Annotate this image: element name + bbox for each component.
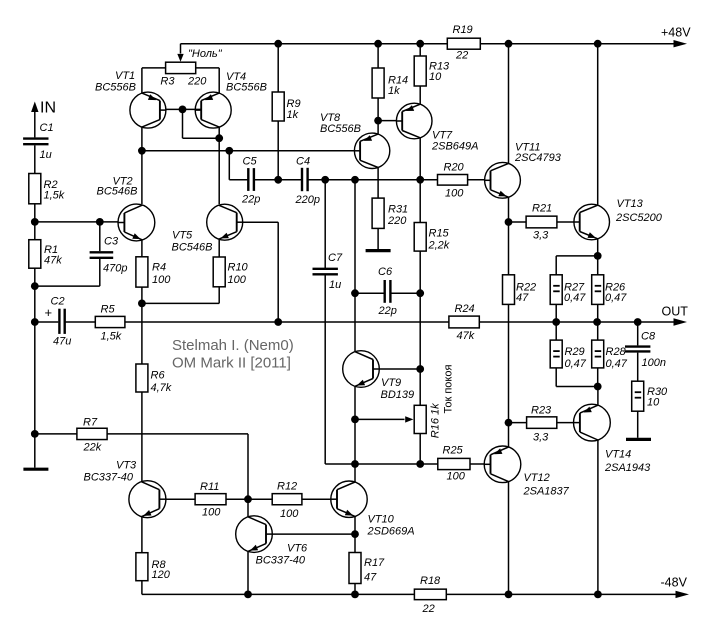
wire VT10 collector up [354,464,356,482]
svg-text:2,2k: 2,2k [428,240,450,252]
junction VT6-base/VT10-em/R17 [351,530,359,538]
wire R29 row to VT14 node [556,386,598,388]
wire rail to R9 [277,44,279,92]
resistor R28 [592,340,628,370]
svg-text:47: 47 [364,572,377,584]
wire VT3 base to R11 [166,498,195,500]
wire node to R16 [419,369,421,405]
wire R16 wiper [355,418,405,420]
wire VT7 collector down [419,138,421,180]
svg-text:Stelmah I. (Nem0): Stelmah I. (Nem0) [172,337,294,354]
wire VT11 emitter down [508,197,510,222]
resistor R2 [29,174,65,204]
svg-text:R21: R21 [532,203,552,215]
wire -48V rail right segment [446,593,676,595]
svg-text:22p: 22p [241,194,260,206]
wire node to R15 [419,180,421,223]
ground R31 [366,249,391,252]
wire C-bus seg3 [308,179,355,181]
wire R12 to VT10 base [302,498,332,500]
wire bus to R29 [555,322,557,340]
wire node to R12 [248,498,272,500]
junction VT13 emitter [594,252,602,260]
wire C6 left lead [355,292,385,294]
resistor R12 [272,481,302,521]
junction C3 top/VT2 base [96,218,104,226]
wire C6 right lead [390,292,420,294]
capacitor C5 [241,156,260,206]
node R16 wiper arrow [405,416,413,422]
svg-text:2SC4793: 2SC4793 [514,152,562,164]
wire R9 to C-bus [277,121,279,180]
junction R1/C3 [31,282,39,290]
svg-text:R18: R18 [420,575,441,587]
node OUT arrow [674,318,688,325]
resistor R24 [449,303,479,342]
svg-text:100: 100 [202,507,221,519]
svg-text:120: 120 [152,569,171,581]
junction rail/VT6 [244,591,252,599]
wire collector row to VT8 base [142,150,355,152]
wire -48V rail left segment [142,593,415,595]
wire R16 to bias row [419,434,421,465]
wire R25 to VT12 base [470,463,485,465]
wire C-bus seg4 [355,179,420,181]
ground input [23,468,48,471]
svg-text:-48V: -48V [661,576,688,590]
svg-text:R19: R19 [453,24,473,36]
svg-text:VT1: VT1 [115,70,135,82]
svg-text:22: 22 [455,50,468,62]
wire R28 to VT14 node [597,368,599,387]
svg-text:3,3: 3,3 [533,432,549,444]
capacitor C7 [313,252,343,291]
junction VT9 emitter/wiper [351,416,359,424]
junction VT1/VT2 collector node [138,147,146,155]
wire R3 right to VT4 emitter [218,68,220,93]
wire VT13-em row left [556,255,598,257]
wire bus R24 to OUT [479,321,674,323]
wire R6 to VT3 collector [141,392,143,482]
wire R8 to rail [141,581,143,595]
svg-text:OM Mark II [2011]: OM Mark II [2011] [172,355,291,372]
wire R10 to row [218,287,220,304]
node +48V arrow [674,40,688,47]
wire R26 to bus [597,304,599,322]
wire VT14 collector to rail [597,440,599,594]
junction rail/R9 [274,40,282,48]
junction R16/bias row [416,460,424,468]
wire VT14 emitter up [597,387,599,406]
junction VT11-em/R21/R22 [505,218,513,226]
junction rail/R17 [351,591,359,599]
wire node to R17 [354,534,356,552]
wire C2 to R5 [65,321,96,323]
junction rail/R14 [374,40,382,48]
resistor R6 [136,364,172,394]
resistor R29 [550,340,587,370]
wire R4 to node [141,287,143,303]
resistor R20 [438,162,468,200]
svg-text:1k: 1k [287,109,299,121]
wire VT10 emitter down [354,516,356,534]
svg-text:BC337-40: BC337-40 [84,472,134,484]
svg-text:C3: C3 [104,236,119,248]
svg-text:R12: R12 [277,481,297,493]
resistor R21 [526,203,557,242]
svg-text:R10: R10 [228,262,249,274]
wire C8 to R30 [637,353,639,382]
resistor R7 [77,417,107,454]
svg-text:47k: 47k [457,330,475,342]
wire VT2 emitter to R4 [141,240,143,257]
svg-text:R7: R7 [83,417,98,429]
wire x355 top to C6 [354,180,356,293]
wire VT11 collector to rail [508,44,510,164]
svg-text:Ток покоя: Ток покоя [443,365,455,414]
resistor R19 [447,24,480,62]
wire VT5 base right [243,221,279,223]
resistor R31 [372,198,408,228]
wire rail to R14 [377,44,379,68]
svg-text:10: 10 [647,397,660,409]
resistor R13 [414,56,450,86]
capacitor C1 [23,122,53,161]
wire C7 down to bias row [324,275,326,464]
junction rail/VT14 [594,591,602,599]
svg-text:22p: 22p [378,305,397,317]
svg-text:BC546B: BC546B [97,186,138,198]
svg-text:0,47: 0,47 [564,292,586,304]
svg-text:R28: R28 [606,346,627,358]
wire VT5 emitter to R10 [218,239,220,257]
svg-text:100: 100 [152,274,171,286]
junction rail/VT12 [505,591,513,599]
wire x420 col down to VT9 base node [419,293,421,369]
svg-text:VT12: VT12 [524,472,550,484]
svg-text:R20: R20 [444,162,465,174]
resistor R5 [95,304,125,343]
svg-text:R29: R29 [565,346,585,358]
wire IN to C1 [34,110,36,137]
wire VT11 node to R21 [509,221,527,223]
svg-text:R6: R6 [151,370,166,382]
svg-text:10: 10 [429,71,442,83]
resistor R30 [632,381,668,411]
resistor R4 [136,257,171,287]
junction C2 node [31,318,39,326]
junction R22/R23/VT12 emitter [505,419,513,427]
wire VT13 emitter down [597,239,599,256]
svg-text:0,47: 0,47 [605,292,627,304]
junction VT7 collector/R15/R20 [416,176,424,184]
wire VT13 collector to rail [597,44,599,206]
svg-text:0,47: 0,47 [565,358,587,370]
wire VT9 emitter down [354,386,356,419]
resistor R26 [592,275,628,305]
svg-text:2SB649A: 2SB649A [431,141,478,153]
wire to R27 top [555,256,557,275]
wire bus to C2 [35,321,59,323]
wire R2 to node [34,204,36,222]
svg-text:BD139: BD139 [381,389,415,401]
wire C-bus to R20 [420,179,437,181]
junction bus/R27 [552,318,560,326]
resistor R14 [372,68,408,98]
svg-text:R4: R4 [152,262,166,274]
transistor VT14 [35,322,668,615]
svg-text:C4: C4 [296,156,310,168]
junction VT4 collector [215,134,223,142]
junction C-bus x355 [351,176,359,184]
svg-text:BC337-40: BC337-40 [256,555,306,567]
svg-text:OUT: OUT [662,305,689,319]
junction R14/VT7-base/VT8-emitter [374,117,382,125]
wire VT7 base lead [378,120,397,122]
wire R17 to rail [354,584,356,595]
wire down to C2 node [34,286,36,322]
svg-text:100: 100 [445,188,464,200]
resistor R18 [414,575,446,615]
node R3 wiper arrow [177,54,183,62]
transistor VT3 [84,337,447,615]
svg-text:C1: C1 [40,122,54,134]
wire VT1-VT4 base tie [166,108,201,110]
svg-text:2SD669A: 2SD669A [367,526,415,538]
wire R13 to VT7 emitter [419,86,421,104]
capacitor C8 [625,331,666,370]
svg-text:R31: R31 [388,204,408,216]
junction R9/C5/C4 [274,176,282,184]
svg-text:470p: 470p [103,263,127,275]
wire +48V rail right segment [480,43,674,45]
wire R3 right lead [196,67,220,69]
node -48V arrow [676,591,690,598]
svg-text:VT13: VT13 [617,198,644,210]
wire R3 left to VT1 emitter [141,68,143,93]
svg-text:3,3: 3,3 [533,230,549,242]
svg-text:220: 220 [387,215,407,227]
svg-text:C5: C5 [243,156,258,168]
wire C3 bottom lead [99,259,101,286]
wire node to R7 [35,433,77,435]
junction bus/R26/R28 [593,318,601,326]
svg-text:100: 100 [447,471,466,483]
wire R29 bottom corner [555,368,557,387]
resistor R1 [29,240,62,269]
wire R31 to ground [377,228,379,249]
svg-text:BC556B: BC556B [95,82,136,94]
wire C3 bottom to R1 [35,285,100,287]
svg-text:R11: R11 [200,481,219,493]
svg-text:VT5: VT5 [172,230,193,242]
junction R7/ground [31,430,39,438]
svg-text:R25: R25 [443,445,464,457]
wire base tie drop [182,109,184,138]
junction R11/R12/VT6-collector/R7 [244,495,252,503]
svg-text:BC546B: BC546B [172,242,213,254]
wire base tie to VT4 collector [183,137,220,139]
svg-text:R5: R5 [101,304,116,316]
junction C6 right [416,289,424,297]
svg-text:2SA1943: 2SA1943 [604,462,651,474]
junction rail/VT11 [505,40,513,48]
svg-text:R17: R17 [364,557,385,569]
wire C1 to R2 [34,145,36,173]
wire corner down to R11 node [247,434,249,499]
capacitor C3 [90,236,128,275]
svg-text:VT6: VT6 [287,543,308,555]
wire R15 to C6 node [419,251,421,293]
wire R21-node to R22 [508,222,510,275]
wire VT6 emitter to rail [247,551,249,594]
wire R7 to corner [107,433,248,435]
wire R3 left lead [142,67,166,69]
svg-text:C6: C6 [378,266,393,278]
svg-text:2SC5200: 2SC5200 [615,212,663,224]
wire C-bus seg1 [229,179,248,181]
transistor VT10 [172,337,446,615]
svg-text:100: 100 [228,274,247,286]
wire VT12 collector to rail [508,482,510,595]
wire VT12 emitter up [508,423,510,448]
wire R22 down to R23 node [508,304,510,422]
wire bias row [325,463,438,465]
svg-text:22k: 22k [83,442,102,454]
svg-text:VT14: VT14 [605,449,631,461]
resistor R27 [550,275,586,305]
junction R28/R29/VT14 emitter [594,383,602,391]
junction rail/VT13 [594,40,602,48]
wire VT6 base to VT10 emitter [272,533,355,535]
svg-text:220: 220 [187,76,207,88]
svg-text:VT3: VT3 [116,460,137,472]
wire bus to R28 [597,322,599,340]
svg-text:1k: 1k [388,85,400,97]
wire R14 to VT7 base node [377,98,379,121]
svg-text:R24: R24 [455,303,475,315]
wire C-bus seg2 [254,179,302,181]
wire +48V rail left segment [181,43,448,45]
svg-text:IN: IN [40,100,56,117]
wire VT6 collector up [247,499,249,517]
wire bus R5 to R24 [125,321,449,323]
ground R30 [626,438,651,441]
svg-text:100: 100 [280,508,299,520]
svg-text:R16 1k: R16 1k [430,403,442,438]
node IN arrow [31,102,38,113]
svg-text:1u: 1u [40,149,52,161]
svg-text:47u: 47u [53,336,71,348]
svg-text:100n: 100n [642,357,666,369]
wire VT13-em to R26 [597,256,599,275]
svg-text:220p: 220p [295,194,320,206]
capacitor C2 [45,296,72,348]
resistor R9 [272,92,300,121]
resistor R15 [414,223,450,252]
wire down to R7 node [34,322,36,434]
svg-text:C2: C2 [51,296,65,308]
wire R20 to VT11 base [468,179,485,181]
wire drop to C5 bus [228,151,230,180]
wire C3 top lead [99,222,101,251]
svg-text:R15: R15 [429,228,450,240]
resistor R10 [213,257,248,287]
svg-text:47k: 47k [44,255,62,267]
wire node to ground [34,434,36,468]
wire R3 wiper from rail [180,44,182,54]
wire node to R23 [509,422,527,424]
svg-text:VT9: VT9 [381,377,401,389]
wire R21 to VT13 base [557,221,574,223]
junction bus/C8 [634,318,642,326]
wire C6 node to VT9 collector [354,293,356,352]
svg-text:VT10: VT10 [368,514,395,526]
wire VT9 base lead [379,368,420,370]
capacitor C6 [378,266,397,317]
svg-text:47: 47 [516,292,529,304]
svg-text:"Ноль": "Ноль" [188,48,223,60]
wire R30 to ground [637,411,639,438]
wire R4-R10 row [142,302,219,304]
wire VT3 emitter to R8 [141,516,143,552]
resistor R22 [503,275,537,305]
svg-text:C8: C8 [641,331,656,343]
junction drop to C5 bus [225,147,233,155]
transistor VT12 [35,322,668,615]
wire node to R1 [34,222,36,240]
svg-text:C7: C7 [328,252,343,264]
svg-text:BC556B: BC556B [320,123,361,135]
svg-text:R23: R23 [531,405,552,417]
wire R1 to C3 node [34,268,36,286]
wire base row VT2 [35,221,119,223]
capacitor C4 [295,156,320,207]
svg-text:+48V: +48V [661,26,691,40]
wire VT8 collector to R31 [377,168,379,198]
junction VT10 collector/bias row [351,460,359,468]
junction R4/R10 row [138,300,146,308]
wire C4 node to C7 [324,180,326,268]
potentiometer R3 [166,62,196,73]
wire R11 to node [226,498,248,500]
junction VT9 base [416,365,424,373]
junction C6 left [351,289,359,297]
transistor VT6 [172,337,446,615]
junction C4/C7 [321,176,329,184]
wire rail to R13 [419,44,421,56]
wire VT9 emitter node to bias row [354,419,356,464]
wire node to VT8 emitter [377,121,379,134]
svg-text:R3: R3 [160,76,175,88]
resistor R23 [527,405,557,444]
wire VT4 collector down [218,127,220,204]
wire node down to R6 [141,303,143,364]
svg-text:4,7k: 4,7k [151,382,172,394]
wire VT5 base drop to bus [277,222,279,322]
svg-text:22: 22 [422,603,435,615]
svg-text:BC556B: BC556B [226,82,267,94]
wire bus to C8 [637,322,639,345]
wire VT1 collector down [141,127,143,204]
junction bus/VT5-base drop [274,318,282,326]
svg-text:1,5k: 1,5k [44,190,65,202]
svg-text:2SA1837: 2SA1837 [523,486,570,498]
resistor R8 [136,553,171,581]
wire R23 to VT14 base [557,422,574,424]
wire R27 to bus [555,304,557,322]
junction R2/R1/VT2-base [31,218,39,226]
